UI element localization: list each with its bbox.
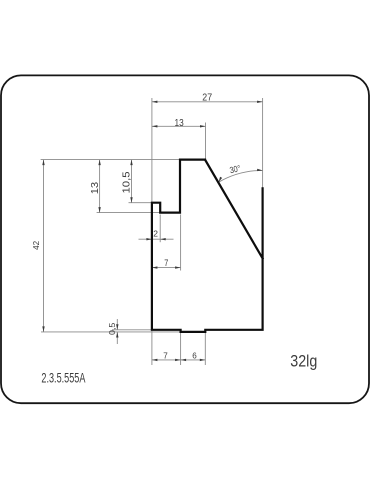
svg-text:2.3.5.555A: 2.3.5.555A	[41, 369, 85, 386]
svg-text:27: 27	[202, 93, 212, 104]
svg-text:7: 7	[163, 352, 168, 361]
svg-text:42: 42	[31, 241, 41, 250]
svg-text:13: 13	[175, 118, 185, 129]
svg-text:32lg: 32lg	[290, 352, 317, 370]
svg-text:13: 13	[90, 181, 101, 194]
svg-text:7: 7	[164, 258, 168, 268]
svg-text:0,5: 0,5	[108, 322, 117, 335]
svg-text:10,5: 10,5	[121, 171, 132, 193]
svg-text:6: 6	[192, 352, 197, 361]
svg-text:2: 2	[153, 229, 158, 239]
